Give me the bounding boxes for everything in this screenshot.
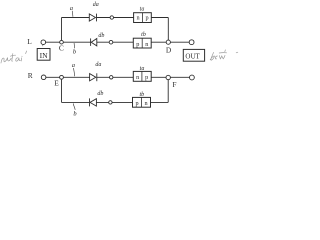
wire: right riser up into node F bbox=[167, 78, 169, 103]
wire: top main line L to diode db bbox=[46, 41, 91, 43]
wire: riser from node C up to branch a bbox=[61, 18, 63, 43]
wire: branch a box ta to right corner bbox=[151, 17, 168, 19]
box tb (top circuit) bbox=[133, 38, 151, 48]
svg-text:ta: ta bbox=[140, 66, 145, 72]
svg-text:n: n bbox=[145, 41, 148, 48]
svg-text:F: F bbox=[172, 80, 176, 89]
svg-text:D: D bbox=[166, 46, 172, 55]
wire: branch a da to box ta bbox=[97, 17, 134, 19]
node on bottom main line after da bbox=[110, 76, 113, 79]
terminal OUT (bottom circuit) bbox=[190, 75, 195, 80]
handwriting: pencil word at right of OUT box bbox=[210, 50, 238, 60]
node F bbox=[166, 75, 170, 79]
wire: branch a from riser to diode da bbox=[62, 17, 90, 19]
svg-text:p: p bbox=[135, 100, 138, 107]
wire: branch b from dropper to diode db bbox=[62, 101, 90, 103]
IN box bbox=[37, 49, 50, 61]
node on branch a after da (top circuit) bbox=[110, 16, 113, 19]
handwriting: pencil apostrophe at lower left bbox=[26, 51, 27, 54]
svg-text:db: db bbox=[97, 91, 103, 97]
svg-text:ta: ta bbox=[140, 7, 145, 13]
diode da (top circuit, points right) bbox=[89, 14, 96, 22]
svg-text:p: p bbox=[136, 41, 139, 48]
wire: right drop into node D bbox=[167, 18, 169, 43]
OUT box bbox=[183, 49, 204, 61]
handwriting: pencil word at lower left bbox=[1, 54, 22, 63]
wire: branch b db to box tb bbox=[96, 101, 132, 103]
diode db (top circuit, points left) bbox=[91, 38, 97, 46]
terminal OUT (top circuit) bbox=[189, 40, 194, 45]
wire: branch b box tb to right riser bbox=[151, 101, 169, 103]
diode db (bottom circuit, points left) bbox=[90, 98, 97, 106]
wire: top main line db to box tb bbox=[97, 41, 134, 43]
wire: bottom main line box ta to OUT terminal bbox=[151, 76, 189, 78]
wire: bottom main line R to diode da bbox=[46, 76, 90, 78]
terminal L bbox=[41, 40, 46, 45]
svg-text:n: n bbox=[136, 15, 139, 22]
svg-text:da: da bbox=[93, 2, 99, 8]
svg-text:E: E bbox=[54, 79, 59, 88]
leader for label a (top circuit) bbox=[71, 11, 74, 17]
terminal R bbox=[41, 75, 46, 80]
wire: bottom main line da to box ta bbox=[97, 76, 134, 78]
svg-text:R: R bbox=[28, 71, 33, 80]
svg-text:p: p bbox=[145, 74, 148, 81]
node C bbox=[60, 40, 64, 44]
svg-text:n: n bbox=[144, 100, 147, 107]
node on main line after db (top circuit) bbox=[109, 40, 113, 44]
node E bbox=[60, 75, 64, 79]
svg-text:p: p bbox=[145, 15, 148, 22]
svg-text:tb: tb bbox=[141, 32, 146, 38]
svg-text:OUT: OUT bbox=[185, 53, 200, 61]
leader for label b (top circuit) bbox=[73, 43, 76, 48]
svg-text:C: C bbox=[59, 43, 64, 52]
wire: top main line box tb to OUT terminal bbox=[151, 41, 189, 43]
wire: dropper from node E down to branch b bbox=[61, 77, 63, 102]
leader for label b (bottom circuit) bbox=[73, 103, 75, 109]
svg-text:n: n bbox=[136, 74, 139, 81]
svg-text:tb: tb bbox=[139, 92, 144, 98]
box ta (top circuit) bbox=[134, 13, 152, 23]
speck above IN box bbox=[42, 45, 44, 46]
box tb (bottom circuit) bbox=[133, 97, 151, 107]
svg-text:db: db bbox=[98, 33, 104, 39]
node on branch b after db (bottom circuit) bbox=[109, 101, 112, 104]
svg-text:IN: IN bbox=[40, 51, 49, 60]
svg-text:L: L bbox=[27, 37, 32, 46]
svg-text:a: a bbox=[70, 5, 73, 12]
leader for label a (bottom circuit) bbox=[74, 68, 75, 76]
node D bbox=[166, 40, 170, 44]
box ta (bottom circuit) bbox=[133, 71, 151, 81]
diode da (bottom circuit, points right) bbox=[90, 73, 97, 81]
svg-text:da: da bbox=[95, 62, 101, 68]
